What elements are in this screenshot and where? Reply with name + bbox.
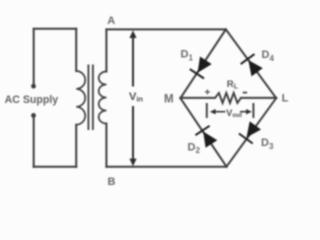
wire node A top horizontal <box>106 28 225 30</box>
wire primary loop left lower <box>33 115 35 166</box>
wire secondary bottom lead <box>105 124 107 167</box>
transformer primary winding <box>76 71 85 125</box>
wire load left lead <box>180 97 215 99</box>
wire bridge top-left side <box>180 29 225 98</box>
wire secondary top lead <box>105 29 107 71</box>
svg-text:AC Supply: AC Supply <box>5 94 59 106</box>
svg-text:A: A <box>107 15 115 27</box>
wire bridge top-right side <box>226 29 276 98</box>
svg-text:M: M <box>164 93 174 105</box>
Vout left bar <box>206 103 208 118</box>
diode D3 <box>239 121 261 143</box>
Vout right bar <box>252 103 254 118</box>
Vin arrow <box>129 30 136 166</box>
transformer core <box>88 65 93 131</box>
diode D1 <box>190 57 212 79</box>
wire bridge bottom-right side <box>227 98 277 167</box>
Vout arrow <box>210 109 252 114</box>
svg-text:+: + <box>205 87 211 98</box>
diode D2 <box>195 126 217 148</box>
wire load right lead <box>241 97 276 99</box>
transformer secondary winding <box>99 72 107 124</box>
svg-text:L: L <box>282 92 289 104</box>
wire primary loop top <box>34 28 76 30</box>
wire bridge bottom-left side <box>180 98 226 166</box>
diode D4 <box>241 54 263 76</box>
label minus <box>243 92 247 94</box>
wire primary loop bottom <box>34 166 76 168</box>
svg-text:B: B <box>108 176 116 188</box>
wire primary loop left upper <box>33 29 35 86</box>
wire primary right lower <box>75 125 77 167</box>
AC source terminal dot bottom <box>31 113 36 118</box>
wire node B bottom horizontal <box>106 166 226 168</box>
resistor RL zigzag <box>215 93 241 103</box>
AC source terminal dot top <box>31 84 36 89</box>
wire primary right upper <box>75 29 77 71</box>
